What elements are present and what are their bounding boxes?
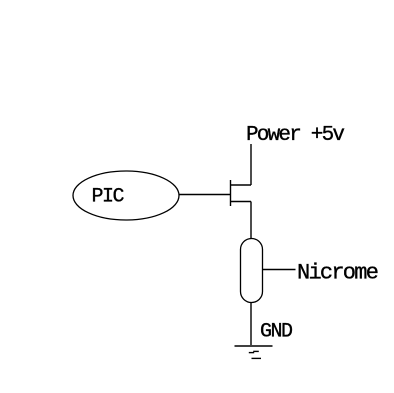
ground symbol xyxy=(235,346,273,358)
wire heater to ground xyxy=(250,303,252,346)
wire source to heater R1 xyxy=(250,202,252,239)
svg-text:Nicrome: Nicrome xyxy=(297,261,378,286)
MCU block U1 PIC (ellipse) xyxy=(73,171,179,220)
wire heater to Nicrome label xyxy=(263,269,296,271)
wire drain to Power +5v xyxy=(250,144,252,185)
wire gate: PIC to Q1 gate xyxy=(179,194,230,196)
resistor R1 nichrome heater element xyxy=(241,239,263,303)
svg-text:PIC: PIC xyxy=(92,186,125,209)
svg-text:GND: GND xyxy=(260,321,292,344)
svg-text:Power +5v: Power +5v xyxy=(246,124,344,147)
transistor Q1 xyxy=(231,180,252,206)
